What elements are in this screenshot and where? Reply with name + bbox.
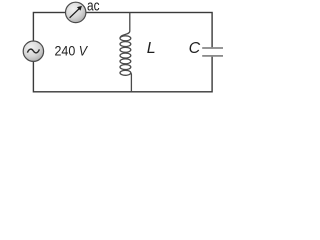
svg-text:ac: ac: [87, 0, 100, 15]
svg-text:C: C: [189, 40, 201, 57]
svg-text:L: L: [147, 40, 156, 57]
svg-text:240 V: 240 V: [55, 43, 89, 59]
